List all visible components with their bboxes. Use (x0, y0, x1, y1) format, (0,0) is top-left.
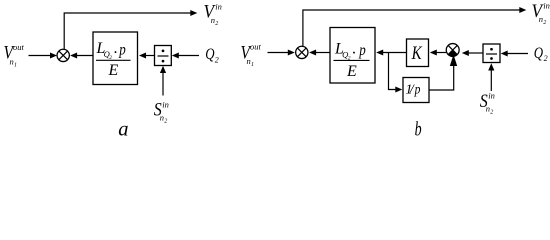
svg-text:in: in (215, 1, 222, 11)
signal label V_n1^out (input, diagram a) (4, 42, 25, 69)
wire: divider b output into summing junction X2b (462, 50, 483, 56)
signal label V_n2^in (output, diagram a) (204, 1, 222, 27)
block K (gain, diagram b) (407, 39, 429, 67)
svg-text:2: 2 (544, 54, 548, 63)
svg-text:2: 2 (164, 118, 167, 124)
wire: Q2 into divider b (501, 51, 528, 57)
svg-text:p: p (358, 42, 365, 59)
divider block a (box with division sign) (155, 46, 172, 66)
svg-text:E: E (346, 63, 357, 80)
svg-text:·: · (352, 45, 356, 62)
signal label S_n2^in (diagram b) (480, 91, 495, 116)
svg-text:2: 2 (543, 20, 546, 26)
svg-text:1: 1 (14, 63, 17, 69)
summing junction X2b (circle with X, lower sector filled) (446, 44, 459, 57)
wire: S_n2^in up into divider a bottom (160, 66, 166, 96)
svg-text:·: · (113, 45, 117, 62)
wire: S_n2^in up into divider b bottom (488, 63, 494, 91)
svg-text:E: E (108, 62, 119, 79)
wire: block Lb output into multiplier X1b (309, 50, 330, 56)
signal label Q2 (diagram a) (205, 46, 219, 65)
block 1/p (integrator, diagram b) (403, 78, 429, 103)
svg-text:b: b (415, 119, 422, 140)
signal label Q2 (diagram b) (534, 45, 548, 63)
value label L_Q2·p over E (fraction inside block Lb) (334, 41, 370, 81)
wire: summing junction X2b output into block K (430, 50, 446, 56)
wire: X1b output up and right to V_n2^in (303, 7, 526, 47)
wire: block 1/p output right and up into X2b bottom (429, 55, 457, 91)
svg-text:p: p (118, 42, 125, 59)
svg-text:out: out (13, 42, 25, 52)
block La: transfer function L_Q2·p/E (diagram a) (93, 32, 138, 85)
svg-text:2: 2 (215, 21, 218, 27)
wire: X1a output up and right to V_n2^in (64, 10, 197, 50)
caption a (118, 119, 128, 141)
svg-text:2: 2 (490, 110, 493, 116)
svg-text:2: 2 (215, 55, 219, 64)
svg-text:1: 1 (251, 62, 254, 68)
wire: feedback branch down from K output into block 1/p (389, 53, 403, 93)
svg-text:K: K (411, 43, 423, 64)
signal label S_n2^in (diagram a) (154, 99, 169, 124)
wire: divider a output into block La (139, 53, 155, 59)
svg-text:in: in (488, 91, 495, 101)
wire: V_n1^out into multiplier X1a (29, 53, 58, 59)
svg-text:out: out (250, 42, 262, 52)
wire: block K output into block Lb (with branch junction) (376, 50, 406, 56)
wire: V_n1^out into multiplier X1b (268, 50, 295, 56)
svg-text:Q: Q (205, 46, 215, 63)
svg-text:p: p (414, 83, 421, 98)
multiplier X1a (circle with X) (57, 49, 69, 61)
svg-text:in: in (162, 99, 169, 109)
wire: Q2 into divider a (172, 53, 199, 59)
value label L_Q2·p over E (fraction inside block La) (96, 40, 131, 79)
signal label V_n1^out (input, diagram b) (241, 42, 262, 69)
block Lb: transfer function L_Q2·p/E (diagram b) (330, 28, 375, 84)
svg-text:in: in (543, 1, 550, 11)
wire: block La output into multiplier X1a (70, 53, 93, 59)
svg-text:a: a (118, 119, 128, 140)
svg-text:Q: Q (534, 45, 544, 62)
divider block b (box with division sign) (483, 44, 500, 63)
caption b (415, 119, 422, 141)
multiplier X1b (circle with X) (296, 46, 308, 58)
signal label V_n2^in (output, diagram b) (532, 1, 550, 27)
